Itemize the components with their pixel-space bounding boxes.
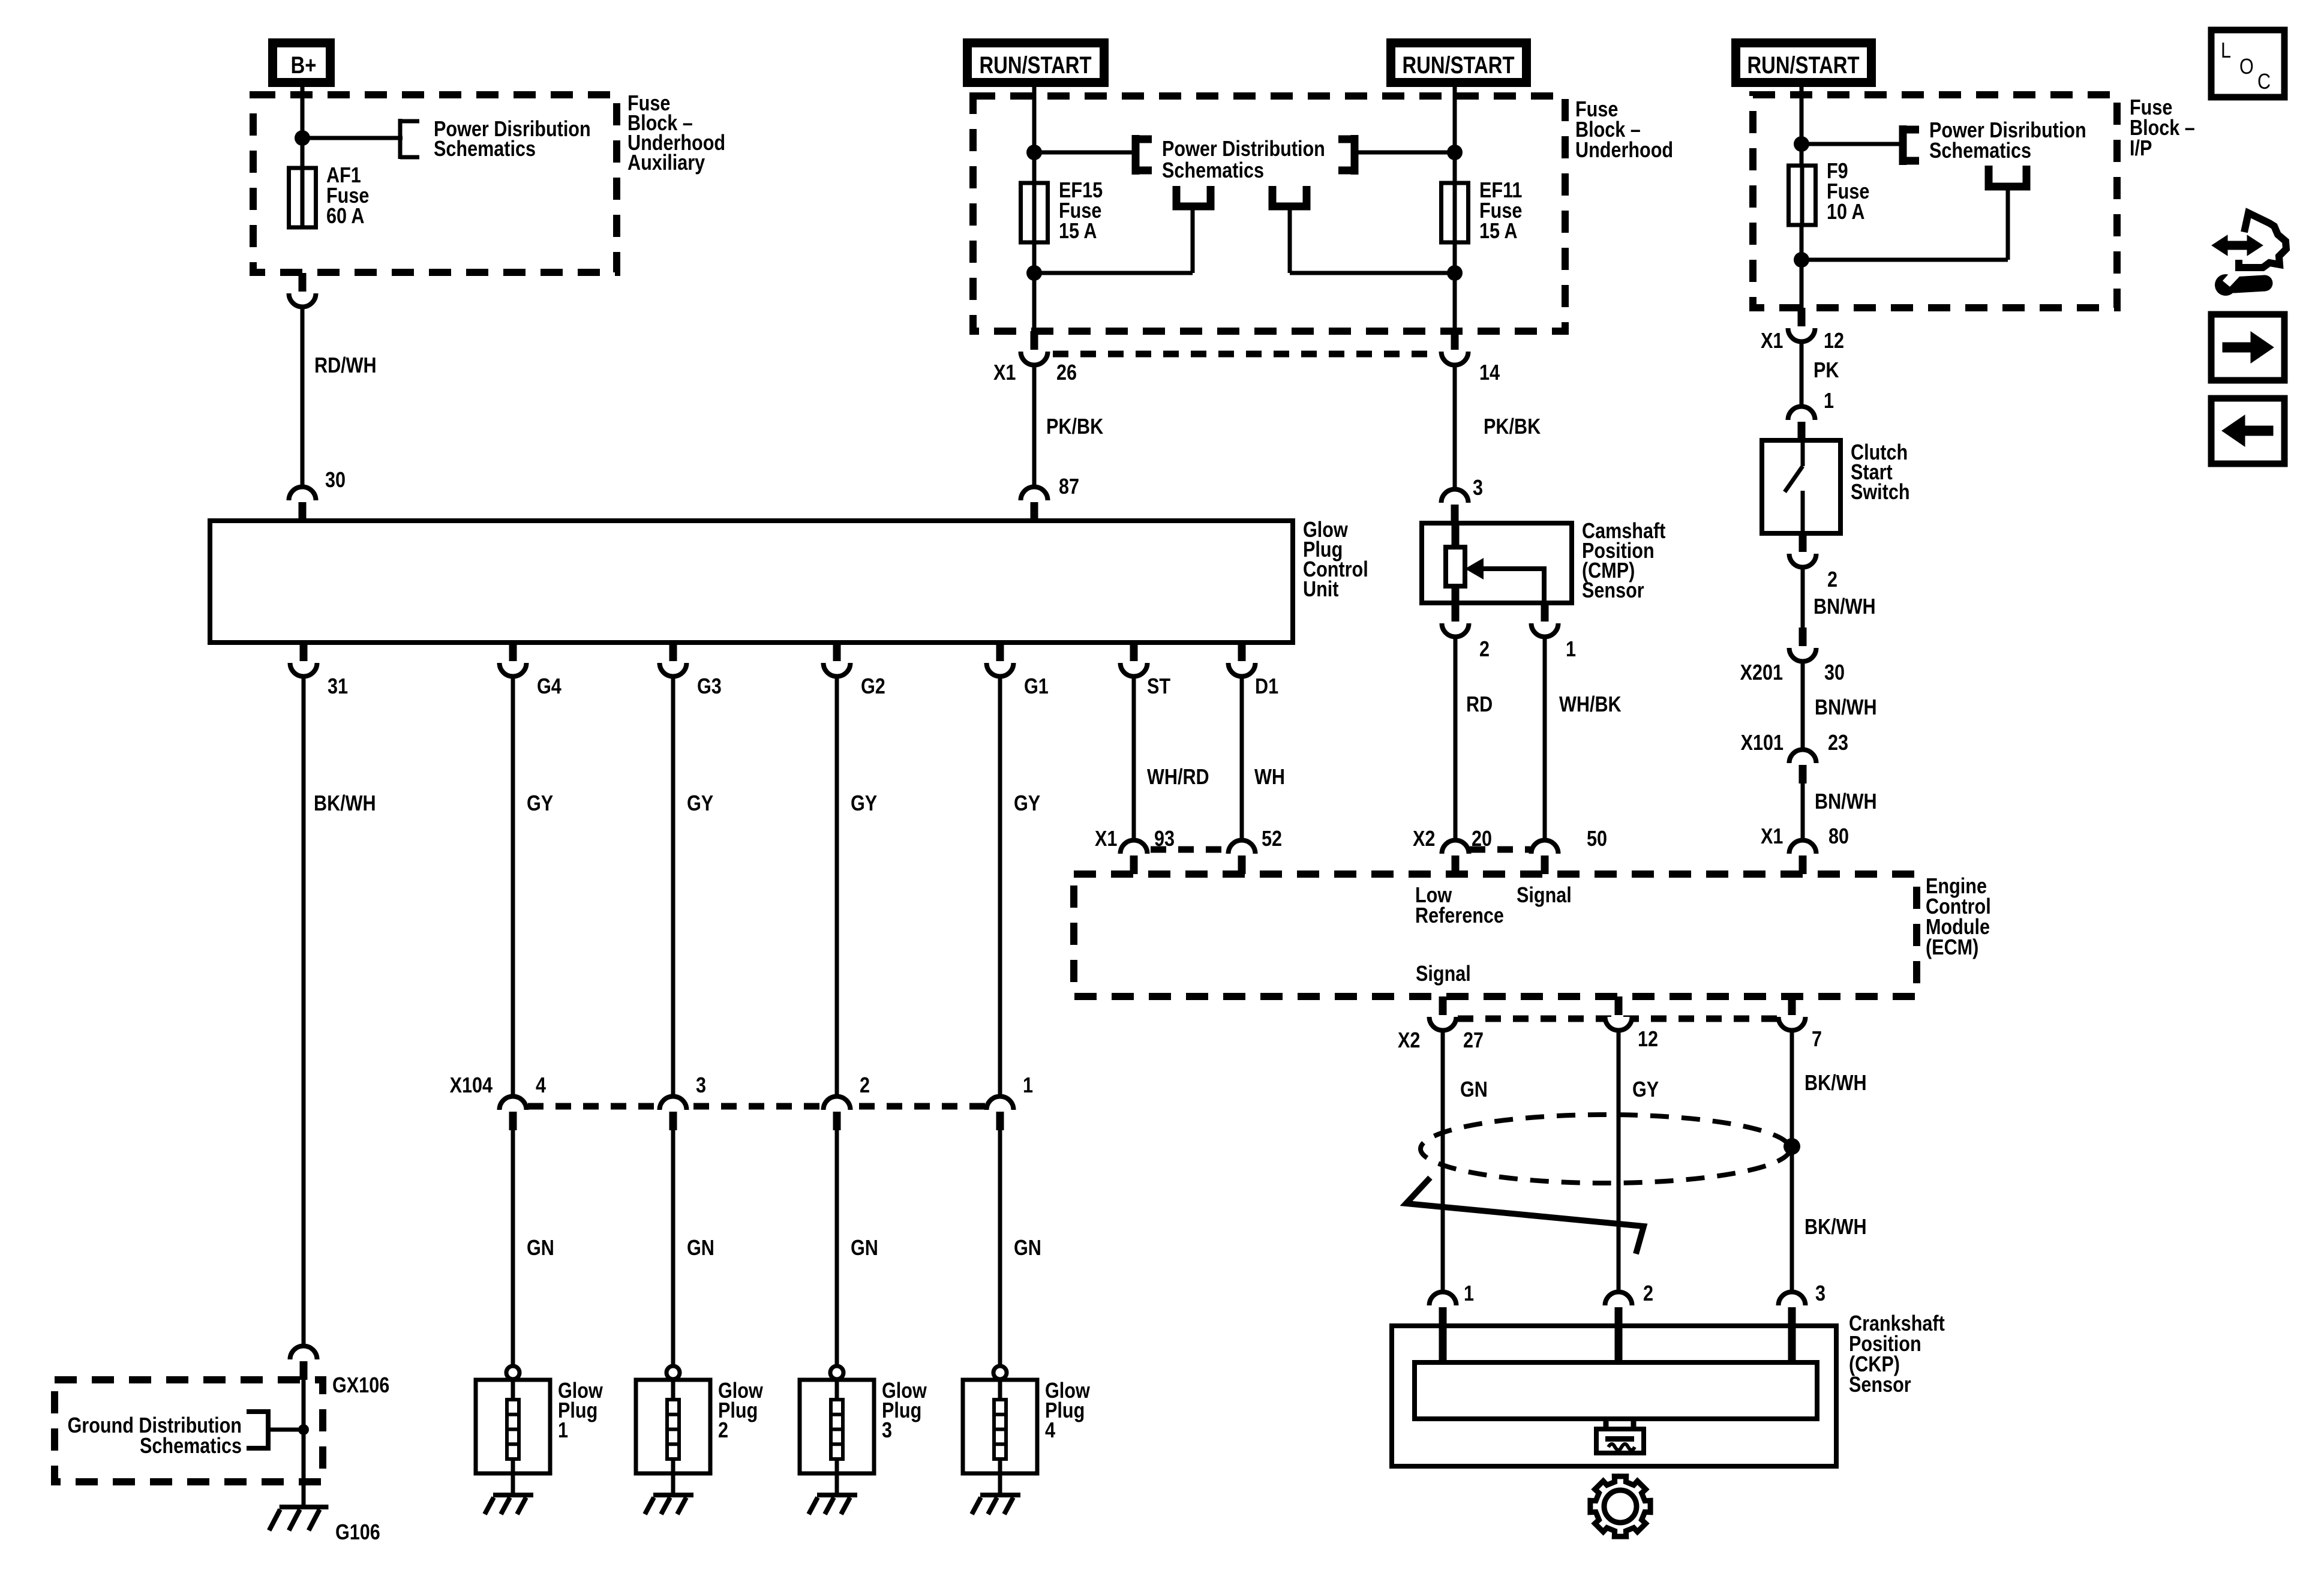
svg-text:20: 20	[1472, 827, 1492, 851]
CKP sensor wires inside	[1439, 1326, 1447, 1362]
wire GY pin G2	[835, 676, 839, 1097]
wire PK/BK left	[1032, 364, 1037, 488]
glow plug 4 ground wire	[998, 1473, 1002, 1495]
node junction EF15 feed	[1026, 145, 1042, 160]
fuse EF15	[1032, 182, 1037, 244]
wire RUN/START 1 to EF15	[1032, 87, 1037, 184]
svg-text:Signal: Signal	[1416, 962, 1471, 986]
svg-text:BK/WH: BK/WH	[314, 792, 376, 816]
svg-text:GY: GY	[1014, 792, 1040, 816]
connector pin 3 CKP	[1779, 1292, 1806, 1306]
svg-text:WH/BK: WH/BK	[1559, 693, 1622, 717]
svg-text:Signal: Signal	[1517, 884, 1572, 908]
wire GN CKP	[1441, 1029, 1445, 1293]
wire PK/BK right	[1453, 364, 1457, 491]
svg-text:26: 26	[1056, 361, 1077, 385]
diagnostic icon outline	[2239, 213, 2286, 268]
connector pin ST glow plug control unit	[1121, 663, 1148, 677]
svg-text:GN: GN	[687, 1236, 714, 1260]
connector pin 1 CKP	[1430, 1292, 1457, 1306]
fuse block underhood dashed box	[973, 96, 1565, 331]
connector X101 dome and stub	[1789, 750, 1816, 764]
connector X2 pin 20 ECM	[1442, 840, 1469, 854]
svg-text:1: 1	[1824, 389, 1834, 413]
svg-text:G106: G106	[335, 1521, 380, 1545]
fuse F9	[1800, 164, 1804, 226]
reference bracket ground distribution	[266, 1409, 271, 1451]
connector X1 pin 12	[1788, 328, 1815, 342]
power tag RUN/START 1	[963, 38, 1109, 87]
twisted wire marker	[1406, 1178, 1644, 1254]
CKP pickup element	[1604, 1419, 1609, 1430]
svg-text:BK/WH: BK/WH	[1804, 1071, 1867, 1095]
wire GY pin G3	[671, 676, 675, 1097]
connector dashed link 27-12-7	[1458, 1016, 1777, 1022]
drop wire from shunt left	[1191, 206, 1195, 273]
connector X2 pin 50 ECM	[1532, 840, 1559, 854]
power tag RUN/START 3	[1731, 38, 1876, 87]
svg-text:PK/BK: PK/BK	[1046, 415, 1103, 439]
svg-text:BK/WH: BK/WH	[1804, 1215, 1867, 1239]
reference bracket middle right	[1351, 135, 1359, 175]
svg-text:2: 2	[1827, 568, 1837, 592]
glow plug 3 ground wire	[835, 1473, 839, 1495]
svg-text:(ECM): (ECM)	[1926, 936, 1978, 960]
svg-text:RUN/START: RUN/START	[1747, 52, 1860, 79]
svg-text:G1: G1	[1024, 675, 1049, 699]
clutch start switch box	[1762, 440, 1840, 533]
reference bracket right fuse block	[1899, 125, 1907, 165]
wire RD	[1454, 636, 1458, 842]
wire F9 to connector X1-12	[1800, 225, 1804, 308]
svg-text:Schematics: Schematics	[434, 137, 536, 161]
svg-text:WH: WH	[1254, 766, 1285, 789]
svg-text:1: 1	[1464, 1282, 1474, 1306]
svg-text:30: 30	[325, 469, 346, 493]
glow plug 3 circle terminal	[830, 1366, 843, 1379]
svg-text:BN/WH: BN/WH	[1815, 790, 1877, 814]
wire GN to glow plug 3	[835, 1130, 839, 1367]
connector GX106	[290, 1346, 317, 1360]
svg-text:GN: GN	[1014, 1236, 1041, 1260]
svg-text:2: 2	[1643, 1282, 1653, 1306]
svg-text:12: 12	[1638, 1028, 1658, 1052]
wire BN/WH upper	[1801, 566, 1805, 628]
glow plug 3 heater element	[835, 1381, 839, 1400]
svg-text:80: 80	[1828, 825, 1849, 849]
svg-text:1: 1	[558, 1419, 568, 1443]
wire WH pin D1	[1240, 676, 1244, 842]
svg-text:O: O	[2239, 55, 2254, 79]
svg-text:RD: RD	[1466, 693, 1493, 717]
svg-text:GY: GY	[687, 792, 713, 816]
fuse block I/P dashed box	[1753, 95, 2117, 308]
node junction GX106	[298, 1424, 309, 1435]
node junction F9 feed	[1794, 136, 1809, 152]
connector pin 30 glow plug control unit	[289, 487, 316, 500]
crankshaft position sensor outer box	[1392, 1326, 1836, 1466]
svg-text:GN: GN	[1460, 1078, 1488, 1102]
connector pin 1 CMP	[1532, 623, 1559, 637]
engine control module dashed box	[1074, 874, 1917, 996]
node junction EF11 bottom	[1447, 265, 1463, 281]
wire bracket to ground wire	[268, 1428, 304, 1432]
clutch start switch contacts	[1801, 440, 1805, 466]
svg-text:2: 2	[860, 1074, 870, 1098]
svg-text:GY: GY	[851, 792, 877, 816]
svg-text:ST: ST	[1147, 675, 1171, 699]
node junction EF11 feed	[1447, 145, 1463, 160]
svg-text:23: 23	[1828, 731, 1848, 755]
diagnostic icon double arrow	[2212, 235, 2263, 256]
wire WH/RD pin ST	[1132, 676, 1136, 842]
svg-text:X1: X1	[1095, 827, 1117, 851]
svg-text:X104: X104	[450, 1074, 493, 1098]
glow plug 2 heater element	[671, 1381, 675, 1400]
svg-text:RUN/START: RUN/START	[980, 52, 1092, 79]
wire BN/WH lower	[1801, 784, 1805, 842]
wire GN to glow plug 1	[511, 1130, 515, 1367]
wire GY pin G1	[998, 676, 1002, 1097]
svg-text:Power Distribution: Power Distribution	[1162, 137, 1325, 161]
svg-text:X201: X201	[1740, 661, 1783, 685]
svg-text:Schematics: Schematics	[140, 1434, 242, 1458]
connector pin 3 CMP sensor	[1442, 490, 1469, 503]
glow plug control unit box	[210, 521, 1293, 643]
svg-text:87: 87	[1059, 475, 1079, 499]
svg-text:PK/BK: PK/BK	[1484, 415, 1541, 439]
glow plug 4 circle terminal	[993, 1366, 1007, 1379]
diagnostic icon wrench	[2234, 283, 2265, 285]
wire F9 lower bus	[1801, 258, 2008, 262]
power tag RUN/START 2	[1386, 38, 1531, 87]
glow plug 1 heater element	[511, 1381, 515, 1400]
wire PK	[1800, 341, 1804, 407]
camshaft position sensor box	[1422, 523, 1572, 603]
svg-text:PK: PK	[1813, 359, 1839, 383]
svg-text:7: 7	[1812, 1028, 1822, 1052]
shunt symbol below bracket right	[1272, 186, 1307, 206]
svg-text:X1: X1	[1761, 329, 1783, 353]
svg-text:G3: G3	[697, 675, 722, 699]
svg-text:WH/RD: WH/RD	[1147, 766, 1209, 789]
svg-text:GN: GN	[527, 1236, 554, 1260]
CMP sensor arrow	[1482, 566, 1546, 571]
connector X104 pin 2	[824, 1097, 851, 1110]
glow plug 4 heater element	[998, 1381, 1002, 1400]
node junction shield drain	[1783, 1138, 1800, 1155]
reference bracket middle left	[1132, 135, 1140, 175]
ground symbol under glow plug 3	[817, 1493, 857, 1497]
connector pin 7 ECM	[1779, 1017, 1806, 1031]
wire GY pin G4	[511, 676, 515, 1097]
svg-text:Unit: Unit	[1303, 578, 1338, 602]
connector X2 pin 27 ECM	[1430, 1017, 1457, 1031]
wire GN to glow plug 4	[998, 1130, 1002, 1367]
shield dashed ellipse	[1421, 1115, 1790, 1183]
connector X201 stub and cup	[1789, 648, 1816, 662]
svg-text:C: C	[2257, 70, 2271, 94]
svg-text:15 A: 15 A	[1479, 220, 1517, 244]
svg-text:GN: GN	[851, 1236, 878, 1260]
svg-text:12: 12	[1824, 329, 1844, 353]
svg-text:30: 30	[1824, 661, 1845, 685]
forward arrow box	[2211, 314, 2284, 380]
svg-text:3: 3	[1473, 476, 1483, 500]
wire RD/WH	[301, 306, 305, 488]
svg-text:Auxiliary: Auxiliary	[627, 151, 705, 175]
connector X104 dashed link	[528, 1103, 987, 1110]
wire tap F9 to reference bracket	[1801, 142, 1899, 146]
wire GN to glow plug 2	[671, 1130, 675, 1367]
fuse block underhood auxiliary dashed box	[253, 95, 617, 272]
svg-text:I/P: I/P	[2130, 137, 2152, 161]
svg-text:B+: B+	[291, 52, 317, 79]
svg-text:X1: X1	[993, 361, 1016, 385]
glow plug 3 box	[800, 1380, 874, 1473]
wire tap EF15 to reference bracket	[1034, 151, 1132, 155]
wire WH/BK	[1543, 636, 1547, 842]
svg-text:52: 52	[1262, 827, 1282, 851]
svg-text:2: 2	[1479, 638, 1490, 662]
connector X1 dashed link 26-14	[1053, 351, 1439, 358]
back arrow box	[2211, 398, 2284, 464]
svg-text:GX106: GX106	[332, 1374, 389, 1398]
connector X1 pin 14	[1442, 352, 1469, 365]
svg-text:3: 3	[1815, 1282, 1825, 1306]
node junction EF15 bottom	[1026, 265, 1042, 281]
connector below fuse block auxiliary	[289, 293, 316, 307]
reluctor gear icon	[1590, 1476, 1650, 1536]
shunt symbol right fuse block	[1989, 166, 2026, 187]
glow plug 2 ground wire	[671, 1473, 675, 1495]
shunt symbol below bracket left	[1176, 186, 1211, 206]
ground distribution dashed box	[55, 1380, 323, 1482]
svg-text:10 A: 10 A	[1827, 200, 1864, 224]
connector X1 pin 26	[1021, 352, 1048, 365]
svg-text:RUN/START: RUN/START	[1403, 52, 1515, 79]
connector pin 2 CMP	[1442, 623, 1469, 637]
connector X104 pin 4	[500, 1097, 527, 1110]
wire tap to power distribution reference (left)	[302, 136, 403, 140]
wire EF15 to connector X1-26	[1032, 242, 1037, 331]
wire RUN/START 2 to EF11	[1453, 87, 1457, 184]
svg-text:3: 3	[882, 1419, 892, 1443]
wire B+ to fuse AF1	[301, 87, 305, 169]
wire GX106 to G106	[302, 1380, 306, 1507]
power tag B+	[268, 38, 335, 87]
glow plug 2 box	[636, 1380, 710, 1473]
svg-text:G2: G2	[861, 675, 885, 699]
connector X1 pin 93 ECM	[1121, 840, 1148, 854]
svg-text:L: L	[2221, 39, 2231, 63]
svg-text:2: 2	[718, 1419, 728, 1443]
svg-text:31: 31	[328, 675, 348, 699]
wire EF11 to connector 14	[1453, 242, 1457, 331]
svg-text:X2: X2	[1413, 827, 1435, 851]
connector pin 31 glow plug control unit	[290, 663, 317, 677]
svg-text:Schematics: Schematics	[1929, 139, 2031, 163]
node junction F9 bottom	[1794, 252, 1809, 268]
connector pin 2 CKP	[1605, 1292, 1632, 1306]
connector pin 87 glow plug control unit	[1021, 487, 1048, 500]
svg-text:14: 14	[1479, 361, 1500, 385]
wire tap EF11 to reference bracket	[1355, 151, 1455, 155]
wire BK/WH CKP upper	[1790, 1029, 1794, 1293]
connector pin 2 clutch start switch	[1789, 554, 1816, 568]
ground symbol under glow plug 1	[493, 1493, 533, 1497]
fuse EF11	[1453, 182, 1457, 244]
svg-text:D1: D1	[1255, 675, 1278, 699]
svg-text:3: 3	[696, 1074, 706, 1098]
ground symbol under glow plug 4	[980, 1493, 1020, 1497]
connector dashed link 93-52	[1151, 846, 1226, 853]
svg-text:93: 93	[1154, 827, 1175, 851]
CMP sensor resistive element	[1452, 523, 1460, 547]
wire EF15 lower bus	[1034, 271, 1193, 275]
svg-text:RD/WH: RD/WH	[314, 354, 377, 378]
glow plug 1 ground wire	[511, 1473, 515, 1495]
glow plug 1 box	[476, 1380, 550, 1473]
wire BK/WH pin 31	[302, 676, 306, 1346]
svg-text:60 A: 60 A	[326, 205, 364, 229]
svg-text:Switch: Switch	[1851, 481, 1910, 505]
drop wire from shunt right	[1288, 206, 1292, 273]
connector X1 pin 80 ECM	[1789, 840, 1816, 854]
locator LOC box	[2211, 30, 2284, 97]
glow plug 4 box	[963, 1380, 1037, 1473]
ground symbol under glow plug 2	[653, 1493, 693, 1497]
connector X104 pin 1	[987, 1097, 1014, 1110]
svg-text:Sensor: Sensor	[1849, 1373, 1911, 1397]
connector pin 1 clutch start switch	[1788, 407, 1815, 420]
connector X104 pin 3	[660, 1097, 687, 1110]
svg-text:1: 1	[1566, 638, 1576, 662]
connector pin G3 glow plug control unit	[660, 663, 687, 677]
drop wire from shunt to F9 bus	[2006, 187, 2010, 260]
svg-text:15 A: 15 A	[1059, 220, 1097, 244]
wire RUN/START 3 to F9	[1800, 87, 1804, 167]
svg-text:G4: G4	[537, 675, 562, 699]
svg-text:1: 1	[1023, 1074, 1033, 1098]
svg-text:BN/WH: BN/WH	[1815, 696, 1877, 720]
svg-text:27: 27	[1463, 1029, 1484, 1053]
svg-text:Schematics: Schematics	[1162, 159, 1264, 183]
svg-text:GY: GY	[1632, 1078, 1659, 1102]
connector pin G1 glow plug control unit	[987, 663, 1014, 677]
svg-text:X1: X1	[1761, 825, 1783, 849]
svg-text:X101: X101	[1741, 731, 1783, 755]
connector pin D1 glow plug control unit	[1229, 663, 1256, 677]
connector pin G4 glow plug control unit	[500, 663, 527, 677]
glow plug 1 circle terminal	[506, 1366, 520, 1379]
svg-text:4: 4	[536, 1074, 546, 1098]
svg-text:50: 50	[1587, 827, 1607, 851]
CKP sensor inner box	[1415, 1362, 1817, 1419]
glow plug 2 circle terminal	[666, 1366, 680, 1379]
svg-text:Reference: Reference	[1415, 904, 1504, 928]
svg-text:4: 4	[1045, 1419, 1055, 1443]
connector dashed link 20-50	[1470, 846, 1530, 853]
connector pin G2 glow plug control unit	[824, 663, 851, 677]
svg-text:X2: X2	[1398, 1029, 1420, 1053]
wire EF11 lower bus	[1290, 271, 1455, 275]
node junction on B+ feed	[295, 130, 310, 146]
wire BN/WH middle	[1801, 661, 1805, 751]
svg-text:GY: GY	[527, 792, 553, 816]
svg-text:Underhood: Underhood	[1575, 139, 1673, 163]
connector pin 12 ECM	[1605, 1017, 1632, 1031]
ground symbol G106	[280, 1505, 329, 1509]
svg-text:Sensor: Sensor	[1582, 579, 1644, 603]
fuse AF1	[301, 167, 305, 229]
wire GY CKP	[1617, 1029, 1621, 1293]
svg-text:BN/WH: BN/WH	[1813, 595, 1876, 619]
reference bracket left fuse block	[398, 119, 403, 159]
connector X1 pin 52 ECM	[1229, 840, 1256, 854]
